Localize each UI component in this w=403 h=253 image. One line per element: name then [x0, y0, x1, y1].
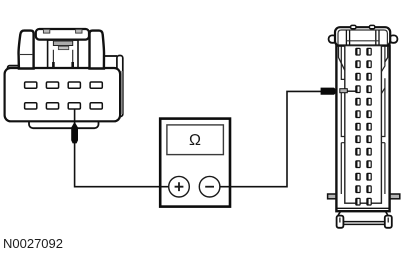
right connector C2 cap top bump left	[351, 25, 356, 28]
right connector C2 chamfer left	[339, 47, 345, 71]
right connector C2 cap divider left	[346, 30, 349, 46]
right connector C2 cavity row 12 col 1	[356, 186, 360, 193]
wire W2 from ohmmeter negative to right connector	[220, 91, 322, 186]
right connector C2 cavity row 11 col 2	[367, 173, 371, 180]
left connector C1 right shelf	[103, 55, 117, 57]
right connector C2 cap center line	[346, 40, 379, 42]
left connector C1 pin 2 row 1	[46, 82, 58, 88]
left connector C1 pin 1 row 1	[25, 82, 37, 88]
left connector C1 latch square R	[76, 29, 82, 33]
right connector C2 cavity row 2 col 1	[356, 61, 360, 68]
right connector C2 foot right	[385, 216, 392, 228]
ohmmeter U1 display	[167, 125, 224, 155]
right connector C2 cavity row 5 col 2	[367, 98, 371, 105]
right connector C2 cavity row 10 col 1	[356, 161, 360, 168]
right connector C2 side bar right	[389, 194, 399, 199]
right connector C2 cavity row 13 col 1	[356, 198, 360, 205]
right connector C2 foot tick right	[387, 218, 389, 223]
right connector C2 ear left	[329, 35, 337, 42]
probe P1 on wire W1	[71, 122, 78, 144]
left connector C1 top-left ear	[8, 66, 21, 77]
left connector C1 pin 4 row 1	[90, 82, 102, 88]
right connector C2 left rail	[341, 47, 345, 195]
left connector C1 right wing shading	[121, 71, 123, 114]
right connector C2 bottom bar	[343, 222, 384, 225]
ohmmeter U1 body	[160, 119, 230, 207]
right connector C2 cavity row 2 col 2	[367, 61, 371, 68]
right connector C2 foot tick left	[339, 218, 341, 223]
right connector C2 cavity row 10 col 2	[367, 161, 371, 168]
right connector C2 base rim	[336, 207, 389, 209]
right connector C2 cavity row 3 col 1	[356, 73, 360, 80]
left connector C1 left prong step	[20, 54, 33, 56]
svg-text:Ω: Ω	[189, 132, 201, 149]
left connector C1 pin 5 row 2	[25, 103, 37, 109]
right connector C2 cavity row 4 col 1	[356, 86, 360, 93]
right connector C2 base flare left	[338, 211, 341, 216]
wire W1 from pin 7 to ohmmeter positive	[75, 109, 179, 187]
left connector C1 latch square L	[43, 29, 49, 33]
right connector C2 foot left	[337, 216, 344, 228]
left connector C1 pin 6 row 2	[46, 103, 58, 109]
left connector C1 latch shelf	[48, 39, 79, 41]
probe P2 tip inside connector	[340, 89, 348, 93]
left connector C1 bottom lip	[29, 112, 99, 128]
right connector C2 right panel lower hook	[381, 88, 385, 94]
right connector C2 inner panel	[345, 46, 382, 204]
left connector C1 latch bar	[36, 29, 89, 40]
wire W1 segment inside meter to positive terminal	[160, 186, 179, 188]
right connector C2 cavity row 8 col 1	[356, 136, 360, 143]
right connector C2 cavity row 11 col 1	[356, 173, 360, 180]
right connector C2 cavity row 13 col 2	[367, 198, 371, 205]
right connector C2 chamfer right	[385, 47, 388, 63]
left connector C1 body	[5, 68, 121, 121]
ohmmeter U1 positive terminal	[169, 176, 190, 197]
right connector C2 cavity row 6 col 2	[367, 111, 371, 118]
right connector C2 cavity row 4 col 2	[367, 86, 371, 93]
right connector C2 cap outer	[335, 27, 390, 46]
right connector C2 cavity row 8 col 2	[367, 136, 371, 143]
left connector C1 pin 3 row 1	[68, 82, 80, 88]
left connector C1 latch column inner	[53, 50, 72, 68]
left connector C1 right prong	[90, 31, 105, 69]
left connector C1 latch column	[48, 40, 78, 67]
right connector C2 cavity row 5 col 1	[356, 98, 360, 105]
right connector C2 cavity row 3 col 2	[367, 73, 371, 80]
left connector C1 pin 8 row 2	[90, 103, 102, 109]
probe P2 lead to cavity	[347, 90, 356, 92]
right connector C2 cavity row 7 col 2	[367, 123, 371, 130]
right connector C2 cavity row 12 col 2	[367, 186, 371, 193]
right connector C2 base flare right	[385, 211, 388, 216]
right connector C2 cap divider right	[376, 30, 379, 46]
left connector C1 latch gray tab small	[58, 46, 68, 49]
right connector C2 right rail	[381, 47, 385, 195]
right connector C2 cap inner	[338, 30, 387, 46]
right connector C2 cavity row 6 col 1	[356, 111, 360, 118]
right connector C2 top cap	[329, 25, 398, 46]
right connector C2 cap top bump right	[369, 25, 374, 28]
left connector C1 latch gray tab	[53, 41, 72, 46]
ohmmeter U1 plus sign	[175, 182, 184, 191]
right connector C2 cavity row 7 col 1	[356, 123, 360, 130]
left connector C1 latch column feet	[53, 62, 72, 68]
right connector C2 ear right	[389, 35, 397, 42]
ohmmeter U1 negative terminal	[199, 176, 220, 197]
right connector C2 cavity row 9 col 1	[356, 148, 360, 155]
probe P2 on wire W2	[321, 88, 339, 95]
right connector C2 cavity row 9 col 2	[367, 148, 371, 155]
left connector C1 pin 7 row 2 (test pin)	[68, 103, 80, 109]
right connector C2 cavity row 1 col 1	[356, 48, 360, 55]
right connector C2 body	[336, 46, 389, 212]
left connector C1 right wing	[117, 56, 123, 117]
right connector C2 side bar left	[328, 194, 337, 199]
left connector C1 left prong	[19, 31, 34, 69]
right connector C2 cavity row 1 col 2	[367, 48, 371, 55]
ohmmeter U1 minus sign	[205, 186, 214, 188]
part number label	[3, 236, 63, 251]
